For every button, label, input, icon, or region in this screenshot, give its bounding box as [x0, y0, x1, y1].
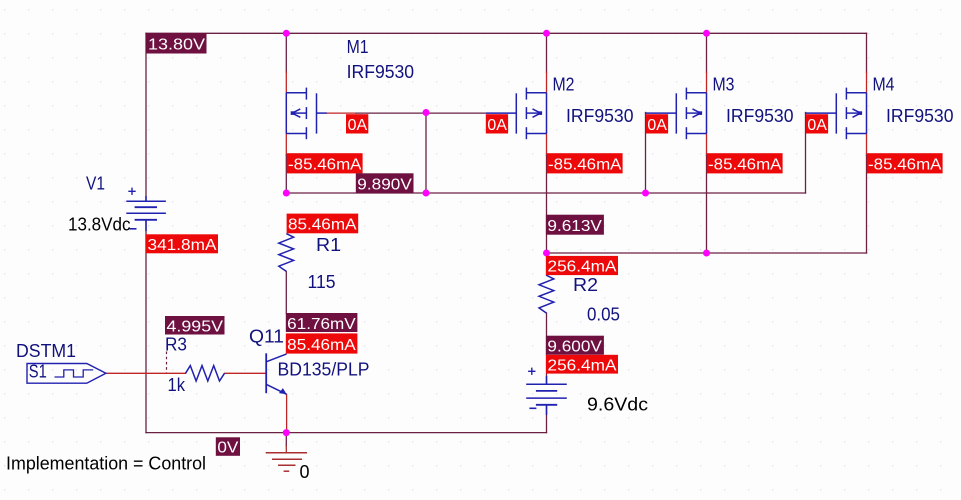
- wire M1 gate to bus: [327, 112, 356, 114]
- svg-text:IRF9530: IRF9530: [347, 62, 415, 82]
- transistor M1 (IRF9530, mirrored): [286, 88, 316, 140]
- transistor M2 (IRF9530): [516, 88, 546, 140]
- svg-text:85.46mA: 85.46mA: [287, 337, 356, 354]
- svg-text:Implementation = Control: Implementation = Control: [6, 454, 206, 474]
- svg-text:256.4mA: 256.4mA: [548, 259, 617, 276]
- svg-text:256.4mA: 256.4mA: [548, 358, 617, 375]
- wire V1 top: [145, 33, 147, 201]
- svg-text:M2: M2: [553, 75, 575, 95]
- wire S1 to R3: [106, 372, 186, 374]
- svg-text:BD135/PLP: BD135/PLP: [278, 359, 370, 379]
- wire M4 gate drop: [805, 113, 807, 194]
- badge 9.890V: [356, 173, 414, 193]
- badge 85.46mA R1: [287, 214, 359, 234]
- svg-text:S1: S1: [29, 362, 47, 382]
- wire R3 to Q11 base: [225, 372, 267, 374]
- badge -85.46mA M3: [707, 153, 783, 173]
- badge -85.46mA M1: [287, 153, 363, 173]
- ground 0: [266, 453, 307, 472]
- resistor R3: [186, 366, 225, 381]
- svg-text:R3: R3: [165, 334, 187, 354]
- svg-text:0V: 0V: [217, 440, 238, 457]
- digital stimulus DSTM1 S1: [27, 364, 106, 384]
- svg-text:0A: 0A: [487, 117, 507, 134]
- transistor M4 (IRF9530): [836, 88, 866, 140]
- transistor M3 (IRF9530): [676, 88, 706, 140]
- wire R1 top node: [285, 271, 287, 313]
- wire M3 source: [706, 33, 708, 72]
- svg-text:R1: R1: [316, 235, 341, 255]
- junction gate drop / gate net rail: [423, 190, 430, 197]
- badge 0A M4: [806, 114, 828, 134]
- wire M1 source: [285, 33, 287, 72]
- resistor R1: [279, 234, 294, 272]
- wire R2 bottom to battery: [546, 313, 548, 384]
- svg-text:R2: R2: [573, 275, 598, 295]
- voltage source V1 battery: [126, 188, 166, 231]
- junction emitter / ground rail / ground symbol: [283, 429, 290, 436]
- junction M1 source / 13.8V rail: [283, 30, 290, 37]
- wire gate drop: [425, 113, 427, 194]
- badge 13.80V: [146, 33, 207, 54]
- svg-text:9.600V: 9.600V: [547, 339, 602, 356]
- wire R2 top: [546, 253, 548, 275]
- svg-text:-85.46mA: -85.46mA: [548, 157, 622, 174]
- svg-text:115: 115: [308, 272, 336, 292]
- svg-text:-85.46mA: -85.46mA: [708, 157, 782, 174]
- badge 0V: [216, 437, 240, 456]
- svg-text:M1: M1: [347, 37, 369, 57]
- wire M3 drain: [706, 134, 708, 156]
- svg-text:-85.46mA: -85.46mA: [868, 157, 942, 174]
- voltage source V2 9.6Vdc battery: [526, 368, 567, 415]
- wire M3 gate drop: [645, 113, 647, 194]
- badge 9.600V: [546, 336, 604, 356]
- svg-text:IRF9530: IRF9530: [886, 106, 954, 126]
- junction M2 drain / output rail / R2: [543, 250, 550, 257]
- badge 0A M2: [486, 114, 508, 134]
- svg-text:1k: 1k: [168, 375, 186, 395]
- badge -85.46mA M4: [867, 153, 943, 173]
- svg-text:DSTM1: DSTM1: [16, 341, 76, 361]
- svg-text:0.05: 0.05: [587, 305, 620, 325]
- junction M3 drain / output rail: [703, 250, 710, 257]
- svg-text:9.6Vdc: 9.6Vdc: [587, 395, 648, 415]
- svg-text:0: 0: [300, 462, 310, 482]
- badge 256.4mA R2: [546, 256, 618, 276]
- wire M2 drain: [546, 134, 548, 156]
- wire output net rail: [547, 252, 867, 254]
- probe dash to 4.995V badge: [166, 352, 168, 373]
- svg-text:0A: 0A: [647, 117, 667, 134]
- wire battery V2 bottom: [546, 405, 548, 433]
- svg-text:0A: 0A: [807, 117, 827, 134]
- junction M3 source / 13.8V rail: [703, 30, 710, 37]
- badge 0A M1: [346, 114, 368, 134]
- junction M1 drain / gate net rail: [283, 190, 290, 197]
- badge 61.76mV: [286, 313, 358, 333]
- wire M2 source: [546, 33, 548, 72]
- wire M4 source: [866, 33, 868, 72]
- wire Q11 emitter to ground rail: [286, 394, 288, 432]
- badge 9.613V: [546, 215, 604, 235]
- svg-text:V1: V1: [86, 174, 105, 194]
- badge 341.8mA: [146, 234, 218, 254]
- wire top rail 13.8V net: [146, 32, 867, 34]
- transistor Q11 BD135: [266, 353, 286, 394]
- svg-text:IRF9530: IRF9530: [566, 106, 634, 126]
- svg-text:9.890V: 9.890V: [357, 177, 412, 194]
- junction M2 source / 13.8V rail: [543, 30, 550, 37]
- svg-text:M3: M3: [713, 75, 735, 95]
- wire ground stub: [285, 433, 287, 446]
- resistor R2: [539, 275, 554, 313]
- svg-text:13.80V: 13.80V: [148, 37, 205, 54]
- svg-text:341.8mA: 341.8mA: [148, 237, 217, 254]
- wire M1 drain: [285, 134, 287, 156]
- svg-text:M4: M4: [873, 75, 895, 95]
- badge 256.4mA V2: [546, 355, 618, 375]
- wire V1 bottom: [145, 220, 147, 433]
- svg-text:IRF9530: IRF9530: [726, 106, 794, 126]
- svg-text:Q11: Q11: [249, 327, 284, 347]
- svg-text:-85.46mA: -85.46mA: [288, 157, 362, 174]
- badge -85.46mA M2: [547, 153, 623, 173]
- svg-text:4.995V: 4.995V: [167, 318, 224, 335]
- badge 0A M3: [646, 114, 668, 134]
- wire gate net rail: [286, 192, 805, 194]
- svg-text:85.46mA: 85.46mA: [288, 217, 357, 234]
- wire M4 drain: [866, 134, 868, 156]
- junction gate bus tap: [423, 109, 430, 116]
- badge 4.995V: [165, 316, 225, 335]
- svg-text:61.76mV: 61.76mV: [287, 316, 356, 333]
- junction M3 gate drop / gate net rail: [642, 190, 649, 197]
- svg-text:0A: 0A: [348, 117, 368, 134]
- svg-text:9.613V: 9.613V: [547, 218, 602, 235]
- wire ground rail: [146, 432, 547, 434]
- svg-text:13.8Vdc: 13.8Vdc: [68, 214, 131, 234]
- badge 85.46mA Q11: [286, 333, 358, 353]
